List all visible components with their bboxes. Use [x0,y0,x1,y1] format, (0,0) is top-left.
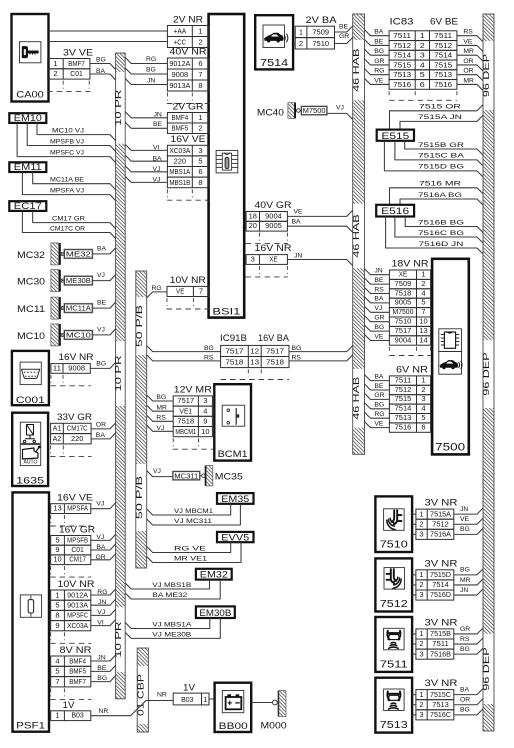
component EM32 splice [196,569,232,580]
svg-text:BE: BE [374,383,384,390]
connector table 3V VE (CA00) [47,47,93,91]
svg-text:BG: BG [96,360,106,367]
svg-text:7514: 7514 [395,404,412,413]
svg-text:M000: M000 [261,721,287,732]
svg-text:MC32: MC32 [17,250,45,261]
svg-text:BE: BE [374,38,384,45]
svg-text:BE: BE [374,277,384,284]
wire 50 P/B bus [134,271,147,568]
svg-text:MC35: MC35 [215,472,243,483]
svg-text:8: 8 [55,611,59,620]
ground M000 [261,691,287,732]
connector table 2V BA (7514) [295,15,336,49]
wire 10 PR bus [113,53,125,699]
svg-text:3V NR: 3V NR [425,618,459,628]
svg-text:MR VE1: MR VE1 [174,555,207,562]
svg-text:OR: OR [460,697,470,704]
svg-text:16V NR: 16V NR [59,352,95,362]
svg-text:VJ: VJ [96,501,104,508]
svg-text:9013A: 9013A [67,601,88,610]
connector table 16V GR (PSF1) [50,524,95,577]
svg-text:3V NR: 3V NR [425,678,459,688]
svg-text:VJ MC311: VJ MC311 [174,518,212,525]
component BCM1 [214,384,251,460]
svg-text:3: 3 [419,530,423,539]
svg-text:3: 3 [251,255,255,264]
svg-text:7515B: 7515B [430,629,451,638]
svg-text:16V NR: 16V NR [255,243,293,253]
svg-text:XC03A: XC03A [169,146,190,155]
svg-text:VJ: VJ [336,104,344,111]
component EC17 splice [9,201,46,211]
svg-text:EM10: EM10 [14,113,42,123]
svg-text:MPSFB: MPSFB [67,535,88,544]
svg-text:2V BA: 2V BA [306,15,337,25]
svg-text:1: 1 [198,113,202,122]
svg-text:7518: 7518 [225,358,243,367]
svg-text:5: 5 [55,535,59,544]
svg-text:6: 6 [198,167,202,176]
svg-text:BG: BG [97,675,107,682]
svg-text:GR: GR [374,315,384,322]
svg-text:16V BA: 16V BA [258,333,289,343]
svg-text:7509: 7509 [395,279,412,288]
svg-text:1635: 1635 [16,475,44,486]
wire 96 DEP bus [481,14,494,731]
component EVV5 splice [217,532,254,542]
svg-text:BG: BG [460,707,470,714]
svg-text:11: 11 [53,363,61,372]
svg-text:40V NR: 40V NR [170,47,208,57]
svg-text:6: 6 [420,80,425,89]
component 7514 alarm siren [255,15,293,69]
connector table 16V NR (C001) [50,352,94,386]
svg-text:BA: BA [374,373,384,380]
svg-text:9012A: 9012A [67,590,88,599]
svg-text:VJ MBS1B: VJ MBS1B [152,582,192,589]
svg-text:7513: 7513 [380,720,409,731]
svg-text:7515: 7515 [434,60,452,69]
svg-text:1: 1 [421,375,425,384]
svg-text:6: 6 [421,422,425,431]
svg-text:VE: VE [374,420,384,427]
svg-text:5: 5 [421,298,425,307]
svg-text:MC311: MC311 [174,473,198,480]
svg-text:EC17: EC17 [14,201,42,211]
svg-text:BSI1: BSI1 [212,307,240,318]
svg-text:7517: 7517 [266,347,284,356]
component C001 diagnostic connector [12,351,49,406]
svg-text:XE: XE [399,270,407,279]
svg-text:3: 3 [203,396,207,405]
svg-text:RG: RG [374,411,384,418]
svg-text:7516C BG: 7516C BG [418,230,464,237]
svg-text:MR: MR [460,577,471,584]
svg-text:9013A: 9013A [169,81,190,90]
svg-text:VE: VE [294,209,304,216]
svg-text:10 PR: 10 PR [113,90,123,126]
svg-text:2: 2 [419,580,423,589]
svg-text:2: 2 [421,279,425,288]
svg-text:4: 4 [55,656,59,665]
svg-text:7516: 7516 [434,80,452,89]
svg-text:1: 1 [419,509,423,518]
connector table 16V NR (BSI1) [246,243,292,277]
svg-text:7511: 7511 [432,639,449,648]
connector table 18V NR (7500) [389,259,430,346]
svg-text:1: 1 [198,27,202,36]
svg-text:BMF4: BMF4 [69,656,86,665]
svg-text:7513: 7513 [432,700,449,709]
svg-text:33V GR: 33V GR [57,412,93,422]
svg-text:2: 2 [53,69,57,78]
svg-text:BMF5: BMF5 [172,124,189,133]
svg-text:9004: 9004 [395,335,412,344]
svg-text:6V NR: 6V NR [396,365,429,375]
svg-text:3V NR: 3V NR [425,558,459,568]
svg-text:BG: BG [374,402,384,409]
svg-text:7513: 7513 [395,413,412,422]
svg-text:96 DEP: 96 DEP [481,352,491,396]
connector table 6V NR (7500) [389,365,430,433]
connector table IC83 6V BE [389,17,458,101]
connector table 40V GR (BSI1) [246,200,292,244]
svg-text:M7500: M7500 [393,307,414,316]
svg-text:VJ MBCM1: VJ MBCM1 [174,508,213,515]
svg-text:JN: JN [154,111,162,118]
svg-text:EM11: EM11 [14,162,42,172]
connector MC11 [17,297,93,319]
svg-text:12: 12 [250,347,259,356]
svg-text:9005: 9005 [265,221,282,230]
connector table 3V NR (7513) [416,678,458,720]
svg-text:4: 4 [203,406,207,415]
component 1635 automatic gearbox ECU [12,413,48,487]
svg-text:3V NR: 3V NR [425,498,459,508]
svg-text:MC30: MC30 [17,277,45,288]
svg-text:7515 OR: 7515 OR [419,104,461,111]
connector table 33V GR (1635) [50,412,92,456]
svg-text:9: 9 [203,417,207,426]
component E516 splice [376,205,414,217]
svg-text:C01: C01 [71,545,84,554]
component 7500 airbag ECU [432,259,469,455]
component 7512 front impact sensor [375,558,412,611]
svg-text:MC11A: MC11A [66,306,91,313]
svg-text:CM17: CM17 [69,555,86,564]
svg-text:BB00: BB00 [219,721,248,732]
svg-text:OR: OR [96,421,106,428]
svg-text:JN: JN [147,77,155,84]
svg-text:16V VE: 16V VE [57,492,93,502]
svg-text:VJ ME30B: VJ ME30B [152,631,192,638]
component BB00 battery [215,683,252,732]
svg-text:GR: GR [339,33,349,40]
svg-text:AUTO: AUTO [24,459,39,465]
connector table 40V NR (BSI1) [167,47,209,104]
svg-text:2: 2 [419,639,423,648]
svg-text:7515D: 7515D [430,570,451,579]
svg-text:MC10: MC10 [17,331,45,342]
svg-text:RS: RS [374,286,384,293]
svg-text:BMF7: BMF7 [68,59,85,68]
svg-text:18V NR: 18V NR [392,259,430,269]
component 7513 side impact sensor [375,678,412,733]
svg-text:2V GR: 2V GR [173,101,205,111]
connector table 12V MR (BCM1) [173,385,213,450]
svg-text:7515C BA: 7515C BA [418,153,465,160]
svg-text:VJ: VJ [97,272,105,279]
svg-text:BE: BE [339,24,349,31]
svg-text:XE: XE [269,255,277,264]
svg-text:2: 2 [420,41,425,50]
svg-text:9004: 9004 [265,211,282,220]
svg-text:BMF4: BMF4 [172,113,189,122]
svg-text:RS: RS [463,29,473,36]
svg-text:MBCM1: MBCM1 [175,427,196,436]
component EM11 splice [9,162,46,172]
svg-text:CM17 GR: CM17 GR [52,215,85,222]
svg-text:4: 4 [420,60,425,69]
svg-text:BA: BA [96,432,106,439]
svg-text:7515: 7515 [393,60,411,69]
connector table 2V GR (BSI1) [167,101,208,133]
svg-text:MBS1A: MBS1A [169,167,190,176]
svg-text:2: 2 [419,519,423,528]
svg-text:1: 1 [420,31,425,40]
svg-text:B03: B03 [181,695,194,704]
svg-text:7516D JN: 7516D JN [419,241,464,248]
svg-text:7516C: 7516C [430,710,451,719]
svg-text:7514: 7514 [260,58,289,69]
svg-text:CM17C: CM17C [67,424,88,433]
svg-text:RG: RG [146,56,156,63]
svg-text:13: 13 [419,326,427,335]
svg-text:7510: 7510 [395,317,412,326]
svg-text:GR: GR [374,392,384,399]
component EM35 splice [217,493,254,504]
svg-text:9: 9 [55,621,59,630]
svg-text:18: 18 [249,211,257,220]
svg-text:7511: 7511 [434,31,452,40]
svg-text:A1: A1 [53,424,61,433]
svg-text:7516B: 7516B [430,649,451,658]
connector table 1V (BB00) [173,683,209,705]
svg-text:JN: JN [460,587,468,594]
component EM30B splice [196,606,235,618]
svg-text:B03: B03 [71,711,84,720]
svg-text:10: 10 [419,317,427,326]
svg-text:VJ MBS1A: VJ MBS1A [152,621,192,628]
svg-text:10V NR: 10V NR [58,579,96,589]
svg-text:BA ME32: BA ME32 [152,592,187,599]
svg-text:7514: 7514 [393,51,411,60]
svg-text:220: 220 [174,157,187,166]
svg-text:MC11A BE: MC11A BE [50,177,84,184]
svg-text:5: 5 [198,157,202,166]
svg-text:BG: BG [156,394,166,401]
svg-text:VJ: VJ [153,468,161,475]
connector MC311 / MC35 [173,466,243,486]
component PSF1 engine fusebox [13,492,50,731]
svg-text:+AA: +AA [174,27,187,36]
svg-text:1V: 1V [63,700,75,710]
svg-text:BG: BG [292,345,302,352]
svg-text:VJ: VJ [97,326,105,333]
svg-text:MR: MR [156,404,167,411]
svg-text:7516: 7516 [395,422,412,431]
svg-text:BE: BE [153,121,163,128]
svg-text:3: 3 [198,146,202,155]
svg-text:3: 3 [420,51,425,60]
svg-text:JN: JN [97,655,105,662]
svg-text:XC03A: XC03A [67,621,88,630]
component CA00 ignition switch [12,14,49,102]
svg-text:MC10: MC10 [66,333,91,340]
svg-text:BG: BG [374,324,384,331]
svg-text:7510: 7510 [312,39,329,48]
wire 46 HAB bus [351,14,364,454]
svg-text:9005: 9005 [395,298,412,307]
svg-text:VE: VE [176,287,184,296]
svg-text:VJ: VJ [374,305,382,312]
svg-text:4: 4 [421,288,425,297]
svg-text:BE: BE [97,300,107,307]
svg-text:10 PR: 10 PR [113,622,123,658]
component E515 splice [377,130,414,141]
svg-text:3: 3 [419,649,423,658]
svg-text:7511: 7511 [395,375,412,384]
connector MC30 [17,270,93,292]
svg-text:VE: VE [463,38,473,45]
svg-text:50 P/B: 50 P/B [134,304,144,347]
svg-text:6: 6 [198,59,202,68]
connector table 10V NR (BSI1) [167,275,210,309]
svg-text:BG: BG [460,646,470,653]
svg-text:220: 220 [71,434,84,443]
connector table 3V NR (7512) [416,558,458,600]
connector table 10V NR (PSF1) [50,579,95,644]
svg-text:8: 8 [198,178,202,187]
svg-text:RG: RG [374,68,384,75]
svg-text:10: 10 [201,427,209,436]
svg-text:7512: 7512 [380,599,409,610]
svg-text:7515B GR: 7515B GR [418,142,464,149]
svg-text:14: 14 [419,335,427,344]
svg-text:7512: 7512 [395,385,412,394]
svg-text:BG: BG [460,567,470,574]
svg-text:RG: RG [152,285,162,292]
component 7510 front impact sensor [375,496,412,552]
svg-text:BA: BA [97,245,107,252]
svg-text:BG: BG [146,67,156,74]
connector MC10 [17,324,93,346]
connector table 3V NR (7511) [416,618,458,660]
svg-text:96 DEP: 96 DEP [481,647,491,691]
svg-text:EM30B: EM30B [199,608,231,618]
svg-text:2: 2 [299,39,303,48]
svg-text:MPSFA VJ: MPSFA VJ [50,187,84,194]
svg-text:MBS1B: MBS1B [169,178,190,187]
svg-text:1V: 1V [183,683,195,693]
svg-text:7515C: 7515C [430,690,451,699]
svg-text:13: 13 [53,504,61,513]
svg-text:3V VE: 3V VE [63,47,93,57]
svg-text:7: 7 [198,70,202,79]
svg-text:VE1: VE1 [180,406,193,415]
connector table 2V NR (BSI1) [167,14,208,47]
svg-text:7518: 7518 [395,288,412,297]
svg-text:7513: 7513 [393,70,411,79]
svg-text:EM32: EM32 [200,570,228,580]
svg-text:7516B BG: 7516B BG [418,219,464,226]
connector table 16V VE (PSF1) [50,492,93,526]
svg-text:7512: 7512 [393,41,411,50]
svg-text:MC40: MC40 [257,107,284,118]
svg-text:20: 20 [249,221,257,230]
svg-text:MPSFA: MPSFA [67,504,88,513]
svg-text:IC83: IC83 [390,17,414,27]
svg-text:EVV5: EVV5 [221,532,249,542]
wire +AA [49,30,168,32]
svg-text:BA: BA [292,219,302,226]
svg-text:2: 2 [419,700,423,709]
svg-text:ME32: ME32 [66,252,91,259]
svg-text:16V VE: 16V VE [171,134,206,144]
svg-text:7515D BG: 7515D BG [418,164,464,171]
svg-text:1: 1 [203,695,207,704]
svg-text:+CC: +CC [174,38,187,47]
svg-text:1: 1 [419,570,423,579]
svg-text:A2: A2 [53,434,61,443]
svg-text:MR: MR [463,77,474,84]
svg-text:MC10 VJ: MC10 VJ [52,128,84,135]
svg-text:BCM1: BCM1 [218,449,248,460]
svg-text:MC11: MC11 [17,304,45,315]
svg-text:BG: BG [460,526,470,533]
svg-text:JN: JN [374,268,382,275]
svg-text:9008: 9008 [68,363,85,372]
svg-text:NR: NR [99,708,109,715]
svg-text:1: 1 [55,590,59,599]
svg-text:7512: 7512 [434,41,452,50]
connector table 8V NR (PSF1) [50,645,92,700]
svg-text:9008: 9008 [172,70,189,79]
svg-text:46 HAB: 46 HAB [351,214,361,258]
svg-text:BA: BA [374,296,384,303]
wire +CC [49,41,168,43]
svg-text:OR: OR [463,58,473,65]
svg-text:5: 5 [420,70,425,79]
svg-text:7517: 7517 [395,326,412,335]
svg-text:7: 7 [55,677,59,686]
component BSI1 built-in systems interface [209,14,245,318]
svg-text:RS: RS [460,636,470,643]
svg-text:BA: BA [460,686,470,693]
svg-text:OR: OR [463,68,473,75]
svg-text:7516: 7516 [393,80,411,89]
svg-text:BE: BE [97,665,107,672]
svg-text:7517: 7517 [225,347,243,356]
svg-text:4: 4 [421,404,425,413]
svg-text:BG: BG [96,57,106,64]
svg-text:RG VE: RG VE [174,545,207,552]
svg-text:VE: VE [374,333,384,340]
svg-text:2: 2 [198,38,202,47]
svg-text:1: 1 [53,59,57,68]
svg-text:7516A: 7516A [430,530,451,539]
svg-text:1: 1 [55,711,59,720]
